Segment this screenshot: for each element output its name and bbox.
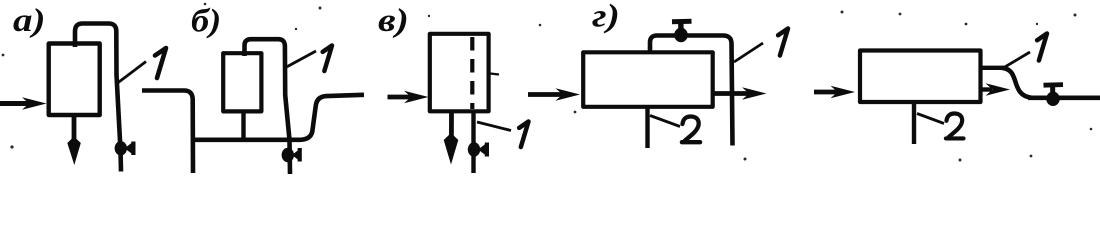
valve d handle (1044, 82, 1064, 87)
svg-text:г): г) (592, 0, 620, 34)
label 1g (778, 29, 788, 56)
bypass pipe b (192, 95, 365, 140)
drain pipe stub v (449, 111, 454, 142)
outlet pipe d (982, 87, 992, 91)
riser pipe b (245, 39, 291, 174)
inlet arrowhead a (22, 97, 47, 109)
inlet pipe v (388, 95, 413, 100)
drain stub d (912, 102, 916, 144)
valve v body (468, 142, 480, 156)
label 1d (1037, 34, 1047, 61)
drain pipe stub a (72, 115, 77, 146)
svg-text:в): в) (378, 2, 409, 38)
vessel v (430, 34, 489, 112)
inlet arrowhead v (404, 91, 429, 103)
valve b seat triangle (292, 149, 301, 162)
leader line 2d (917, 114, 944, 124)
vessel g (583, 52, 713, 107)
inlet pipe d (814, 90, 839, 95)
leader line 1a (118, 62, 147, 84)
leader line 2g (650, 116, 680, 127)
leader line 1g (734, 43, 763, 62)
condensate pipe v (471, 111, 475, 173)
vessel b bottom stub (241, 112, 245, 140)
riser pipe a (75, 24, 121, 172)
condensate line d (1028, 96, 1100, 101)
vessel b (223, 53, 261, 111)
inlet arrowhead d (831, 86, 856, 98)
drain arrowhead a (67, 137, 81, 166)
vessel a (49, 44, 100, 116)
label 1b (323, 46, 332, 72)
label 2d (946, 113, 964, 138)
leader line 1v (477, 122, 511, 131)
valve b seat bar (298, 148, 302, 162)
leader line 1d (1004, 52, 1030, 68)
valve d stem (1050, 86, 1055, 97)
valve v seat triangle (478, 143, 487, 156)
valve a seat bar (131, 142, 135, 156)
inlet arrowhead g (556, 88, 581, 100)
vessel d (860, 51, 981, 103)
svg-text:б): б) (191, 2, 221, 39)
valve b body (282, 148, 294, 162)
s-curve condensate pipe d (1002, 68, 1031, 98)
baffle dashed line v (470, 37, 474, 109)
bypass valve g body (674, 28, 688, 42)
valve d body (1046, 92, 1060, 106)
valve a body (115, 141, 127, 155)
leader line 1b (287, 51, 317, 67)
bypass valve g handle (672, 19, 692, 25)
valve a seat triangle (125, 142, 134, 155)
upper stub d (981, 66, 1004, 70)
outlet arrowhead d (986, 83, 1011, 95)
valve v seat bar (485, 143, 489, 157)
bypass valve g stem (678, 23, 684, 33)
bypass pipe g (650, 36, 733, 146)
inlet pipe g (528, 92, 563, 97)
label 1v (519, 122, 528, 148)
label 1a (155, 48, 166, 78)
vessel v right tick (490, 74, 499, 75)
outlet pipe g (712, 91, 750, 96)
drain stub g (645, 107, 649, 148)
svg-text:а): а) (13, 2, 45, 39)
inlet pipe b (142, 91, 193, 174)
inlet pipe a (0, 101, 33, 106)
drain arrowhead v (444, 133, 459, 165)
scan specks (2, 3, 1093, 162)
label 2g (682, 117, 700, 143)
outlet arrowhead g (742, 87, 767, 99)
